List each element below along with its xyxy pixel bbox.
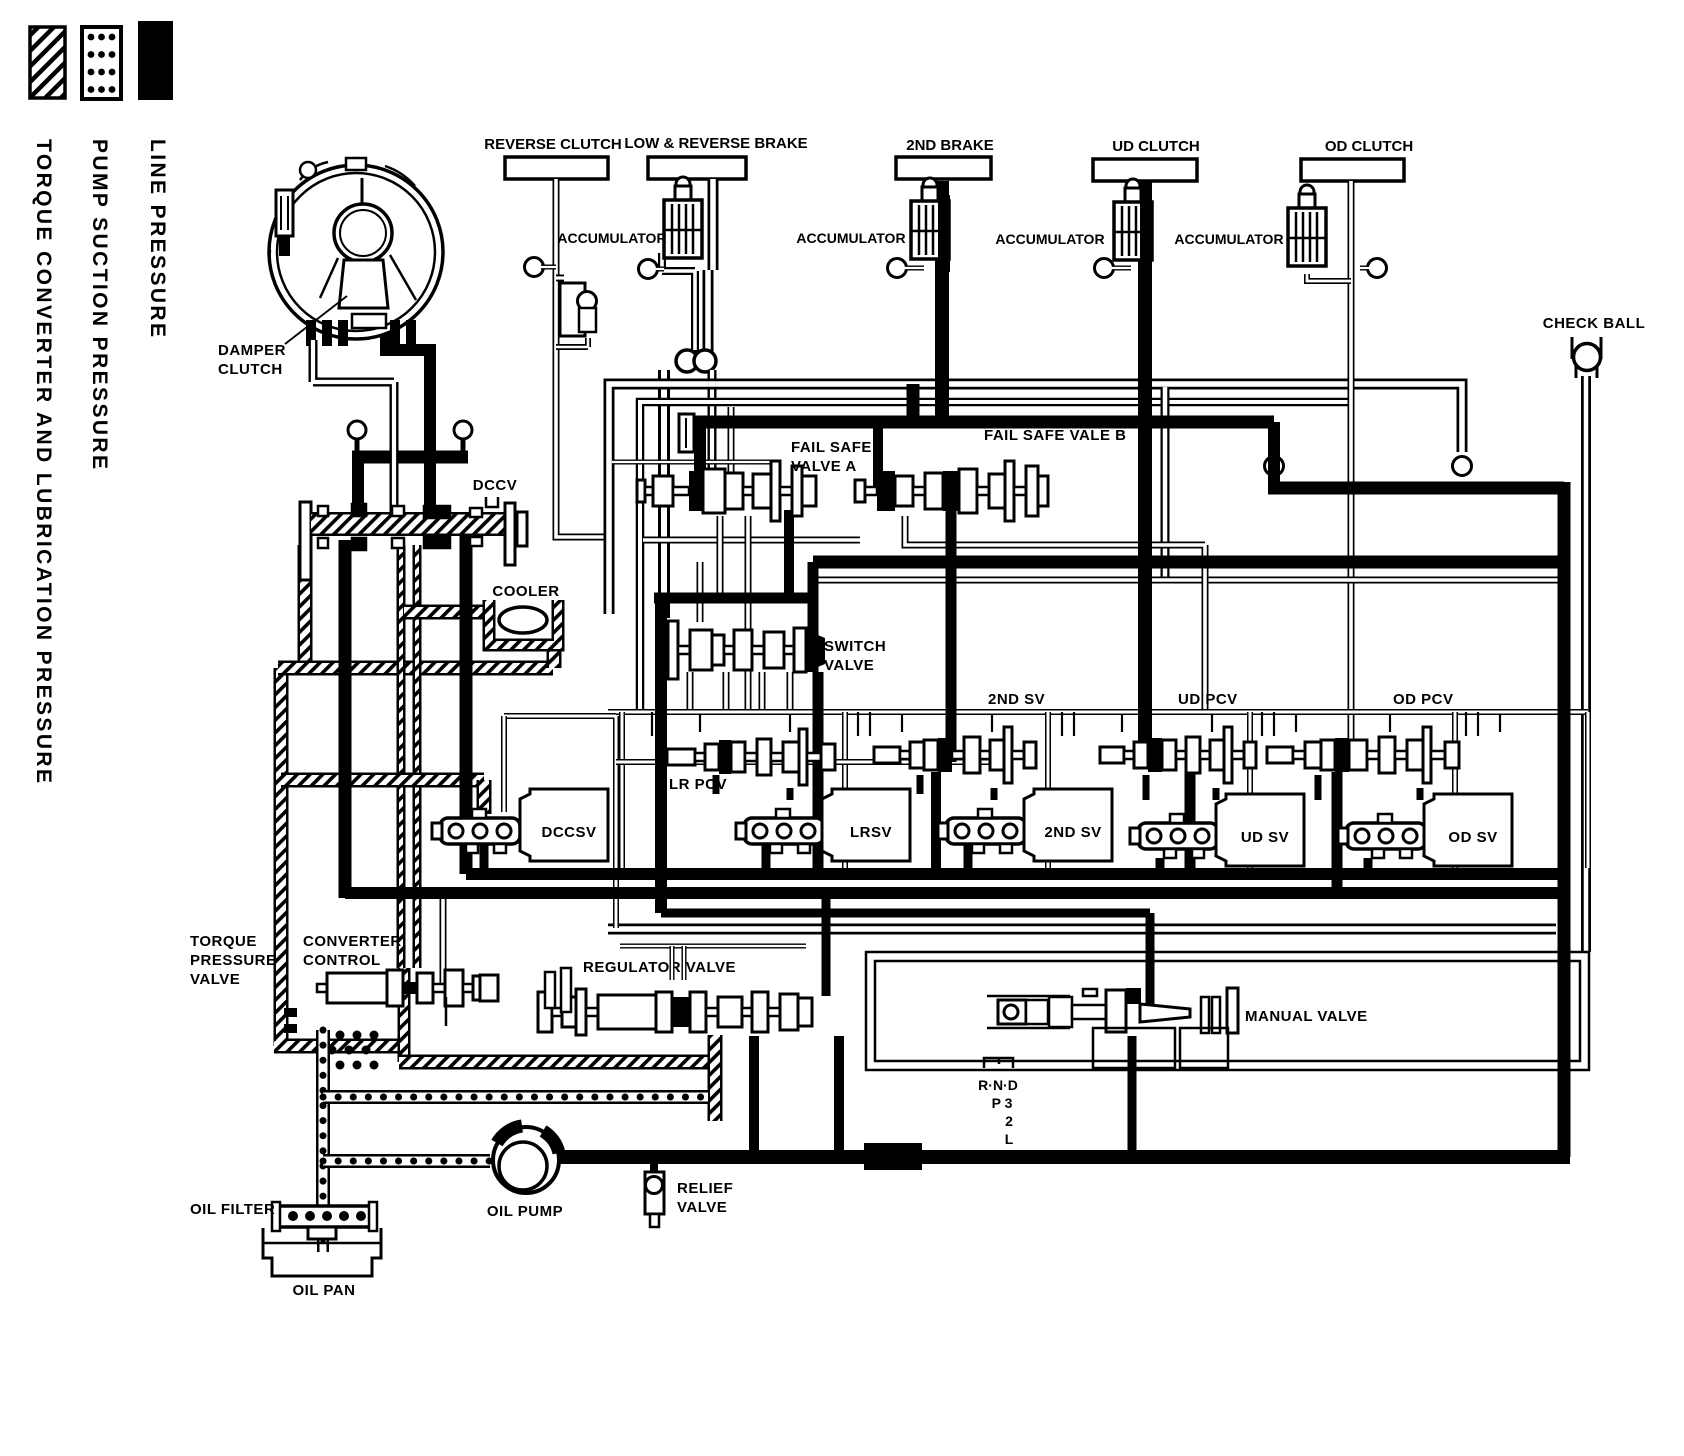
- damper clutch ball: [334, 204, 392, 262]
- svg-text:ACCUMULATOR: ACCUMULATOR: [796, 230, 905, 246]
- check ball 2nd line: [888, 259, 907, 278]
- check ball reverse line: [525, 258, 544, 277]
- wire regulator enclosure top: [620, 944, 806, 949]
- line thick drop to DCCV: [352, 463, 364, 518]
- check ball assembly top right: [1572, 337, 1601, 359]
- line thick y598: [654, 593, 813, 604]
- torque converter left port: [276, 190, 293, 236]
- line thick dccv drain down: [460, 513, 473, 874]
- pcv to solenoid stubs: [713, 775, 720, 794]
- line od pcv drop: [1332, 772, 1343, 893]
- wire left oval drop to switch valve: [658, 370, 670, 618]
- solenoid valve LRSV: [744, 818, 824, 844]
- oil pan: [263, 1228, 381, 1276]
- valve DCCV row: [300, 502, 311, 580]
- svg-text:VALVE: VALVE: [677, 1199, 727, 1216]
- solenoid valve OD SV: [1346, 823, 1426, 849]
- relief valve: [645, 1172, 664, 1214]
- wire top pipe A: [609, 384, 1462, 614]
- ball 2nd thick corner: [1265, 457, 1284, 476]
- hatched pipe main vertical wall 1: [397, 545, 406, 968]
- svg-text:UD SV: UD SV: [1241, 829, 1289, 846]
- wire section divider 4: [1247, 712, 1253, 868]
- line drop to fail safe valve B: [873, 427, 883, 486]
- wire valve A to LR section: [745, 516, 752, 712]
- line converter outlet thick: [386, 316, 430, 545]
- ball on thick header left: [348, 421, 366, 439]
- line thick H3 manual supply: [661, 909, 1150, 918]
- check ball ud line: [1095, 259, 1114, 278]
- hatched pipe dccv left drop: [298, 545, 313, 668]
- converter drain thin pipe: [313, 340, 394, 514]
- hatched pipe cooler drop: [547, 645, 562, 668]
- plug above valve A: [679, 414, 694, 452]
- svg-text:FAIL SAFE VALE B: FAIL SAFE VALE B: [984, 427, 1126, 444]
- svg-text:R·N·D: R·N·D: [978, 1077, 1018, 1093]
- line thick converter feed down: [339, 540, 352, 898]
- wire fail safe enclosure top: [612, 460, 778, 465]
- svg-text:DCCSV: DCCSV: [541, 824, 596, 841]
- line manual valve drain: [1128, 1036, 1137, 1157]
- dotted pipe suction vertical to oil filter: [316, 1030, 330, 1226]
- line thick horizontal y488: [1268, 482, 1564, 495]
- svg-text:VALVE: VALVE: [824, 657, 874, 674]
- svg-text:SWITCH: SWITCH: [824, 638, 886, 655]
- line lr feed down: [655, 598, 667, 913]
- leader line damper clutch: [285, 296, 347, 344]
- wire valve A drain: [717, 516, 724, 598]
- wire ud branch to mid line: [1161, 387, 1170, 580]
- cooler: [489, 600, 558, 645]
- line thick right vertical: [1558, 482, 1571, 1157]
- valve OD PCV spool: [1267, 747, 1293, 763]
- hatched pipe below converter control: [398, 968, 411, 1062]
- reverse clutch plate: [505, 157, 608, 179]
- regulator valve top bars: [545, 972, 555, 1008]
- svg-text:2ND SV: 2ND SV: [1044, 824, 1101, 841]
- suction junction dot cluster: [336, 1031, 345, 1040]
- line regulator drain 2: [834, 1036, 844, 1157]
- svg-text:VALVE: VALVE: [190, 971, 240, 988]
- turbine hub trapezoid: [339, 260, 388, 308]
- svg-text:REVERSE CLUTCH: REVERSE CLUTCH: [484, 136, 622, 153]
- valve fail safe valve B spool: [855, 480, 865, 502]
- svg-text:REGULATOR VALVE: REGULATOR VALVE: [583, 959, 736, 976]
- line lrsv drain: [762, 845, 771, 874]
- wire valve B under line: [905, 516, 1205, 712]
- svg-text:UD PCV: UD PCV: [1178, 691, 1238, 708]
- line valve A drain to y598: [784, 510, 794, 598]
- svg-text:VALVE A: VALVE A: [791, 458, 857, 475]
- oil filter: [277, 1206, 372, 1227]
- ball on thick header right: [454, 421, 472, 439]
- wire section divider right: [1585, 712, 1591, 868]
- svg-text:CHECK BALL: CHECK BALL: [1543, 315, 1646, 332]
- solenoid valve DCCSV: [440, 818, 520, 844]
- line drop to fail safe valve A: [694, 422, 706, 486]
- low & reverse brake plate: [648, 157, 746, 179]
- legend hatched swatch (line pressure): [30, 27, 65, 98]
- line thick H1: [466, 868, 1564, 880]
- line thick horizontal y562: [813, 556, 1564, 569]
- svg-text:P 3: P 3: [992, 1095, 1013, 1111]
- line relief valve stem: [650, 1160, 658, 1174]
- svg-text:CONVERTER: CONVERTER: [303, 933, 402, 950]
- converter bottom splines: [306, 320, 316, 346]
- wire to converter control: [440, 899, 447, 988]
- wire switch valve drain 2: [723, 672, 730, 712]
- line 2ndsv drain: [964, 845, 973, 874]
- switch valve black end: [806, 630, 825, 672]
- dotted pipe into oil pan: [317, 1226, 329, 1252]
- check ball low&rev line: [639, 260, 658, 279]
- hatched pipe main vertical wall 2: [413, 545, 422, 968]
- svg-text:TORQUE: TORQUE: [190, 933, 257, 950]
- svg-text:DCCV: DCCV: [473, 477, 518, 494]
- 2nd accumulator thick overlay: [938, 195, 950, 272]
- wire switch valve drain 1: [687, 672, 694, 712]
- line dccsv drain: [480, 845, 489, 874]
- svg-text:ACCUMULATOR: ACCUMULATOR: [995, 231, 1104, 247]
- shifter gate diagram: [984, 1058, 1013, 1068]
- solenoid valve 2ND SV: [946, 818, 1026, 844]
- svg-text:OIL FILTER: OIL FILTER: [190, 1201, 275, 1218]
- svg-text:ACCUMULATOR: ACCUMULATOR: [1174, 231, 1283, 247]
- svg-text:PRESSURE: PRESSURE: [190, 952, 277, 969]
- hatched pipe left frame (torque pressure valve): [274, 668, 399, 1046]
- torque converter outer shell: [269, 165, 443, 339]
- accumulator od clutch: [1300, 185, 1314, 199]
- valve UD PCV spool: [1100, 747, 1124, 763]
- valve converter control spool: [317, 984, 327, 992]
- svg-text:OD CLUTCH: OD CLUTCH: [1325, 138, 1413, 155]
- svg-text:UD CLUTCH: UD CLUTCH: [1112, 138, 1200, 155]
- svg-text:CLUTCH: CLUTCH: [218, 361, 283, 378]
- valve regulator spool: [538, 992, 552, 1032]
- svg-text:LRSV: LRSV: [850, 824, 892, 841]
- line thick H2: [345, 887, 1564, 899]
- svg-text:CONTROL: CONTROL: [303, 952, 381, 969]
- valve manual valve spool: [987, 996, 1070, 1028]
- svg-text:OD PCV: OD PCV: [1393, 691, 1454, 708]
- hatched pipe cooler return: [278, 661, 553, 676]
- line bottom main thick: [556, 1150, 1570, 1164]
- wire od accumulator drain: [1307, 274, 1351, 281]
- manual valve lower chambers: [1093, 1028, 1175, 1068]
- reverse line accumulator pocket: [556, 275, 564, 282]
- svg-text:DAMPER: DAMPER: [218, 342, 286, 359]
- 2nd brake plate: [896, 157, 991, 179]
- wire bundle to valve A: [728, 407, 735, 484]
- torque converter top nub: [346, 158, 366, 170]
- hatched pipe to cooler: [404, 605, 492, 620]
- line stub above y422: [907, 384, 920, 422]
- line ud clutch thick: [1138, 181, 1152, 745]
- svg-text:LOW & REVERSE BRAKE: LOW & REVERSE BRAKE: [624, 135, 807, 152]
- svg-text:PUMP SUCTION PRESSURE: PUMP SUCTION PRESSURE: [88, 139, 111, 471]
- dotted pipe suction to regulator: [323, 1090, 708, 1104]
- oil pump: [493, 1127, 559, 1193]
- wire od clutch pipe: [1348, 181, 1355, 742]
- section texture stubs: [651, 712, 653, 736]
- svg-text:MANUAL VALVE: MANUAL VALVE: [1245, 1008, 1368, 1025]
- line regulator drain 1: [749, 1036, 759, 1157]
- dotted pipe suction to oil pump: [323, 1154, 490, 1168]
- valve switch valve spool: [668, 621, 678, 679]
- line 2nd sv feed lower: [931, 772, 941, 874]
- row borders solenoid valve section: [608, 709, 1588, 715]
- wire dccsv to lrsv line: [616, 759, 990, 765]
- wire section divider 3: [1045, 712, 1051, 868]
- ud accumulator thick overlay: [1140, 196, 1152, 274]
- line bottom thick block: [864, 1143, 922, 1170]
- valve 2ND SV PCV spool: [874, 747, 900, 763]
- wire to switch valve: [697, 562, 704, 622]
- svg-text:FAIL SAFE: FAIL SAFE: [791, 439, 872, 456]
- svg-text:COOLER: COOLER: [492, 583, 559, 600]
- line switch valve right drop: [808, 562, 819, 672]
- wire under fail safe valve A: [643, 537, 860, 544]
- svg-text:RELIEF: RELIEF: [677, 1180, 733, 1197]
- svg-text:2ND BRAKE: 2ND BRAKE: [906, 137, 994, 154]
- manual valve enclosure: [866, 952, 1589, 1070]
- line ud pcv drop: [1185, 758, 1196, 874]
- wire low&rev accumulator drain: [662, 253, 695, 352]
- ball od branch lower: [1453, 457, 1472, 476]
- svg-text:LR PCV: LR PCV: [669, 776, 727, 793]
- line 2nd brake thick: [935, 181, 949, 422]
- svg-text:LINE PRESSURE: LINE PRESSURE: [146, 139, 169, 339]
- wire section divider 1: [619, 712, 625, 868]
- wire top pipe B: [640, 402, 1351, 712]
- svg-text:OIL PAN: OIL PAN: [293, 1282, 356, 1299]
- line manual valve supply drop: [1146, 913, 1155, 1004]
- line corner drop at ball: [1268, 422, 1280, 488]
- accumulator 2nd brake: [923, 178, 937, 192]
- svg-text:2: 2: [1005, 1113, 1013, 1129]
- ud clutch plate: [1093, 159, 1197, 181]
- legend dotted swatch (pump suction pressure): [82, 27, 121, 99]
- wire right oval drop to valve A: [708, 370, 717, 484]
- svg-text:OIL PUMP: OIL PUMP: [487, 1203, 563, 1220]
- line switch valve drain to H1: [813, 672, 824, 874]
- wire check ball down right side: [1581, 376, 1591, 952]
- solenoid valve UD SV: [1138, 823, 1218, 849]
- svg-text:OD SV: OD SV: [1448, 829, 1497, 846]
- svg-text:2ND SV: 2ND SV: [988, 691, 1045, 708]
- svg-text:L: L: [1005, 1131, 1014, 1147]
- torque pressure valve marks: [284, 1008, 297, 1017]
- line thick horizontal y422: [694, 416, 1274, 429]
- hatched pipe to dccsv: [281, 773, 484, 788]
- hatched pipe to regulator suction: [399, 1055, 708, 1070]
- hatched pipe dccsv drop: [477, 780, 492, 814]
- line udsv drain: [1156, 858, 1165, 874]
- line regulator right feed: [822, 893, 831, 996]
- wire low&reverse to ovals: [708, 179, 713, 352]
- check ball od line: [1368, 259, 1387, 278]
- legend solid swatch (torque converter pressure): [138, 21, 173, 100]
- wire switch valve drain 3: [759, 672, 766, 712]
- wire reverse clutch pipe: [556, 179, 607, 610]
- junction ovals low&rev: [688, 350, 704, 359]
- wire section divider 2: [842, 712, 848, 868]
- line odsv drain: [1364, 858, 1373, 874]
- line thick header under converter: [352, 451, 468, 464]
- svg-text:TORQUE CONVERTER AND LUBRICATI: TORQUE CONVERTER AND LUBRICATION PRESSUR…: [32, 139, 55, 785]
- wire long mid line y580: [814, 577, 1568, 584]
- line 2nd sv feed: [946, 509, 957, 762]
- valve fail safe valve A spool: [637, 480, 645, 502]
- hatched pipe regulator drop: [708, 1035, 723, 1121]
- valve LR PCV spool: [667, 749, 695, 765]
- DCCSV enclosure: [504, 716, 616, 928]
- wire section divider 5: [1452, 712, 1458, 868]
- accumulator low&reverse: [676, 177, 690, 191]
- od clutch plate: [1301, 159, 1404, 181]
- wire switch valve drain 4: [787, 672, 794, 712]
- accumulator ud clutch: [1126, 179, 1140, 193]
- svg-text:ACCUMULATOR: ACCUMULATOR: [557, 230, 666, 246]
